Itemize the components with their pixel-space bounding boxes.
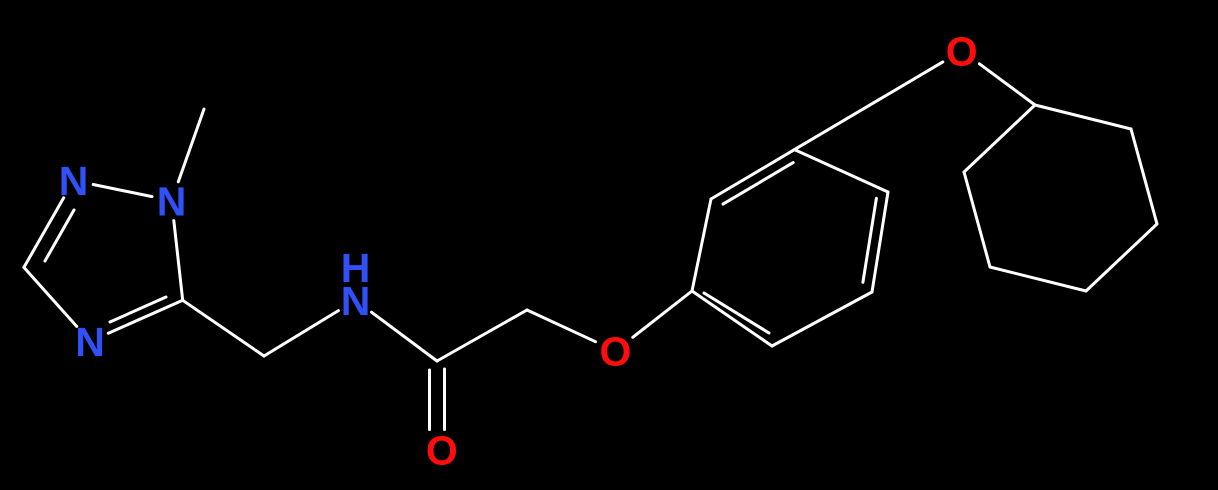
wire C3-N4 <box>24 267 77 326</box>
wire N4-C5 <box>108 300 182 333</box>
wire N1-N2 <box>93 185 152 197</box>
wire B3-B4 <box>1086 224 1157 291</box>
wire D-E <box>872 192 888 292</box>
double bond inner D-E <box>863 198 877 282</box>
wire N2-C3 <box>24 198 64 268</box>
wire B2-B3 <box>1131 129 1157 224</box>
double bond inner N2-C3 <box>45 210 74 261</box>
carbonyl C=O line <box>428 370 431 430</box>
svg-text:O: O <box>426 428 458 474</box>
svg-text:O: O <box>600 329 632 375</box>
svg-text:O: O <box>946 28 978 74</box>
double bond inner F-P <box>704 293 769 333</box>
wire CH3-N1 <box>178 109 204 182</box>
wire B6-Bl <box>964 105 1035 172</box>
wire NH-Cc <box>372 312 438 361</box>
svg-text:N: N <box>157 178 187 224</box>
carbonyl C=O line <box>443 369 446 430</box>
svg-text:H: H <box>341 245 371 291</box>
wire Bl-B2 <box>1035 105 1131 129</box>
wire C5-N1 <box>174 221 183 301</box>
svg-text:N: N <box>59 158 89 204</box>
wire C5-CH2a <box>183 300 264 356</box>
wire R-D <box>795 150 889 192</box>
wire CH2a-NH <box>264 311 338 356</box>
wire CH2b-Oe <box>527 310 596 342</box>
wire E-F <box>772 292 872 346</box>
wire Oe-P <box>633 291 692 337</box>
wire P-Q <box>692 199 711 291</box>
wire B4-B5 <box>990 267 1086 291</box>
wire Q-R <box>711 150 795 199</box>
wire F-P <box>692 291 772 346</box>
wire R-Al <box>795 100 879 149</box>
wire Al-Ot <box>878 62 943 100</box>
wire B5-B6 <box>964 172 990 267</box>
double bond inner Q-R <box>723 163 793 205</box>
wire Cc-CH2b <box>437 310 527 361</box>
wire Ot-Bl <box>979 64 1035 105</box>
double bond inner N4-C5 <box>110 297 166 322</box>
svg-text:N: N <box>75 319 105 365</box>
